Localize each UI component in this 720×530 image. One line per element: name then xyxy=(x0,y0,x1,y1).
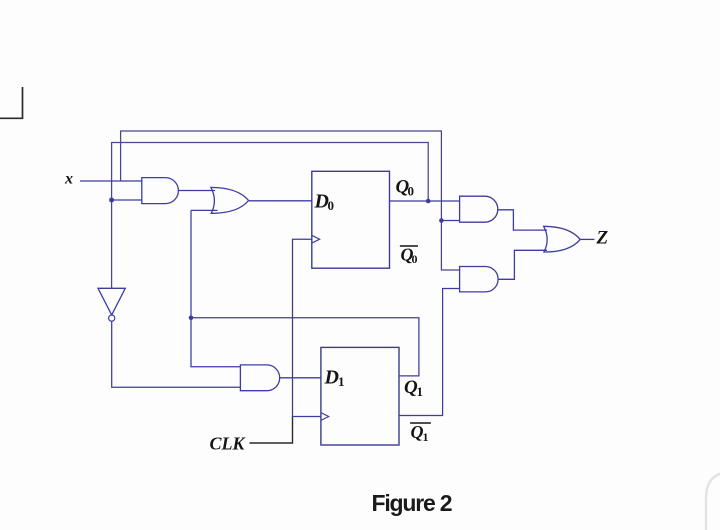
svg-text:0: 0 xyxy=(328,198,335,213)
wire: branch to AND3 input 2 xyxy=(441,220,459,222)
and-gate A2 (bottom left) xyxy=(240,365,279,391)
wire: A2 output to D1 xyxy=(280,377,321,379)
svg-text:x: x xyxy=(64,171,73,188)
and-gate A4 (bottom right) xyxy=(460,267,498,292)
node: junction loop1/AND3 xyxy=(439,218,444,223)
wire: A3 output to OR2 xyxy=(498,210,547,230)
label Q0-bar xyxy=(400,245,418,247)
svg-text:1: 1 xyxy=(423,430,429,444)
svg-text:D: D xyxy=(324,367,339,389)
wire: x input xyxy=(80,180,142,182)
wire: feedback loop 1 (x line up, across top, down to right AND gates) xyxy=(121,131,460,270)
wire: CLK vertical to D0 clock xyxy=(293,239,312,416)
wire: CLK branch to D1 clock xyxy=(293,416,321,418)
and-gate A3 (top right) xyxy=(460,196,498,222)
wire: branch to AND1 input 2 xyxy=(112,199,142,201)
wire: A4 output to OR2 xyxy=(498,250,547,279)
wire: CLK lead xyxy=(250,417,293,444)
label Q1-bar xyxy=(410,422,431,424)
flip-flop U0 box xyxy=(312,171,390,268)
wire: O1 input 2 xyxy=(191,209,218,211)
wire: Z output xyxy=(580,238,594,240)
svg-text:0: 0 xyxy=(408,184,415,199)
wire: O1 output to D0 xyxy=(249,200,312,202)
svg-text:Z: Z xyxy=(596,228,609,249)
node: junction at AND1 input 2 xyxy=(109,198,114,203)
flip-flop U1 box xyxy=(321,347,399,445)
wire: Q0 output to AND3 xyxy=(390,200,460,202)
node: junction Q1 feedback xyxy=(189,316,194,321)
wire: Q1 feedback vertical (to OR1 and AND2) xyxy=(191,210,241,366)
inverter N1 (triangle) xyxy=(98,288,125,315)
pin: D1 clock wedge xyxy=(321,413,329,421)
node: junction Q0/loop2 xyxy=(426,199,431,204)
svg-text:CLK: CLK xyxy=(210,434,247,454)
wire: A1 output to OR1 xyxy=(178,190,215,192)
svg-text:0: 0 xyxy=(412,252,418,266)
svg-text:1: 1 xyxy=(338,374,345,389)
inverter bubble xyxy=(109,315,115,321)
svg-text:1: 1 xyxy=(417,384,424,399)
wire: feedback loop 2 (Q0 up, across top, down left to AND1 and inverter) xyxy=(112,143,429,289)
corner crop mark (black L) xyxy=(0,87,23,118)
faint rounded button corner bottom-right xyxy=(706,472,720,530)
or-gate O1 xyxy=(211,187,249,213)
svg-text:Figure 2: Figure 2 xyxy=(372,490,452,516)
or-gate O2 (output Z) xyxy=(544,226,581,252)
wire: inverter output to AND2 input 2 xyxy=(112,321,241,387)
pin: D0 clock wedge xyxy=(312,235,320,243)
and-gate A1 (x AND Q0) xyxy=(142,178,179,204)
wire: Q1-bar up to A4 input 2 xyxy=(399,289,460,416)
wire: Q1 feedback horizontal to Q1 pin xyxy=(191,318,419,376)
